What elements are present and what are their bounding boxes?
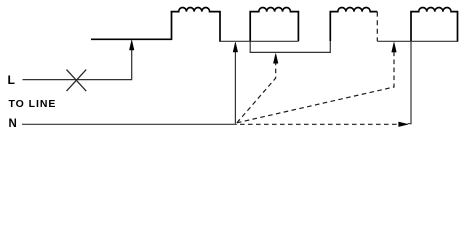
wire: L3 dashed-lead bottom to L4 right lead <box>377 40 457 42</box>
wire: bold input stub to first coil <box>91 12 172 39</box>
arrowhead: solid tap arrow at L1-L2 wire <box>233 42 238 52</box>
wire: L1 bottom to L2 right lead <box>220 40 298 42</box>
wire: L4 left lead drop to N level <box>408 42 412 124</box>
arrowhead: dashed arrow pointing right at L4 drop <box>399 122 408 127</box>
inductor L4 <box>411 8 458 42</box>
wire: dashed tap lead to L2 wire <box>237 63 276 123</box>
switch X on L line <box>67 70 87 92</box>
inductor L3 <box>330 7 377 41</box>
wire: dashed right lead of L3 <box>376 12 378 42</box>
arrowhead: dashed tap arrow at y41 wire <box>392 42 397 52</box>
label TO LINE <box>9 98 57 110</box>
wire: N line solid <box>22 123 237 125</box>
wire: L line from terminal to riser <box>23 50 132 80</box>
wire: L2 left lead down and across to L3 left lead <box>250 41 330 52</box>
label L <box>8 73 15 87</box>
wire: dashed N continuation to L4 drop <box>240 123 399 125</box>
wire: solid riser from N junction to tap arrow <box>234 52 236 124</box>
arrowhead: dashed tap arrow at y52 wire <box>273 54 278 64</box>
label N <box>9 118 17 130</box>
wire: dashed tap lead to L3-L4 wire <box>237 53 394 123</box>
inductor L2 <box>250 7 298 41</box>
inductor L1 <box>171 8 220 42</box>
arrowhead: L riser pointing up at stub <box>129 40 134 50</box>
